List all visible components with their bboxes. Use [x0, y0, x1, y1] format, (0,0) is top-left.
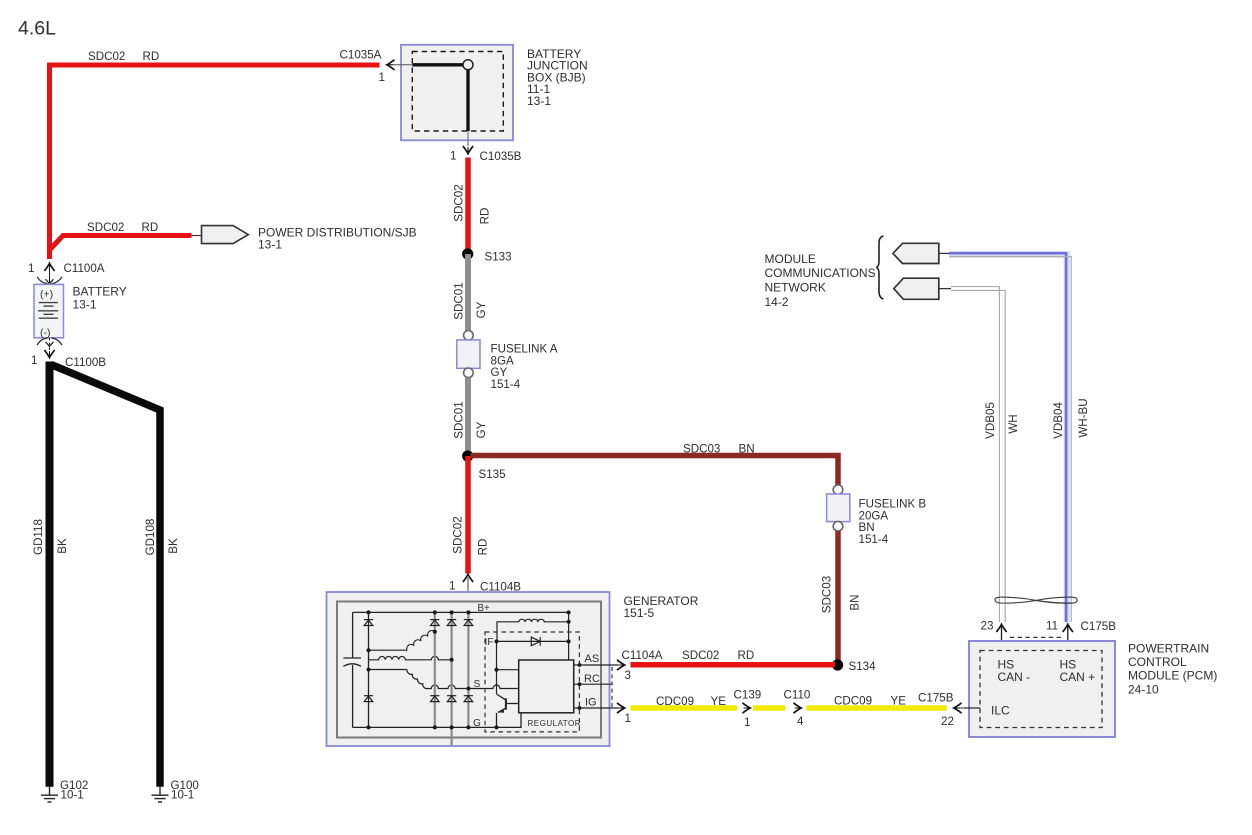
wire SDC03 BN S135 to fuselink B — [471, 456, 839, 486]
svg-text:RD: RD — [477, 539, 490, 556]
stator winding top — [407, 631, 435, 651]
svg-text:GY: GY — [475, 421, 488, 438]
field drive vertical — [497, 641, 519, 694]
svg-text:GY: GY — [475, 301, 488, 318]
svg-text:10-1: 10-1 — [171, 789, 194, 802]
svg-text:10-1: 10-1 — [61, 789, 84, 802]
svg-text:RD: RD — [738, 649, 755, 662]
svg-text:CDC09: CDC09 — [834, 695, 872, 708]
svg-text:SDC01: SDC01 — [453, 282, 466, 319]
twisted pair crossover — [995, 597, 1077, 603]
wire SDC03 BN fuselink B to S134 — [835, 531, 841, 665]
svg-text:POWERTRAIN: POWERTRAIN — [1128, 641, 1209, 655]
battery top terminal bracket — [37, 277, 62, 284]
svg-text:G: G — [473, 718, 481, 729]
svg-text:23: 23 — [981, 620, 994, 633]
svg-text:RD: RD — [479, 208, 492, 225]
pin AS — [574, 653, 631, 682]
svg-text:IG: IG — [585, 697, 597, 709]
field B+ vertical — [568, 612, 570, 660]
svg-text:S134: S134 — [849, 660, 877, 673]
generator left branch with capacitor — [343, 612, 361, 727]
svg-text:SDC01: SDC01 — [453, 401, 466, 438]
svg-text:CONTROL: CONTROL — [1128, 655, 1187, 669]
svg-text:SDC02: SDC02 — [452, 516, 465, 553]
svg-text:1: 1 — [450, 150, 456, 163]
svg-text:14-2: 14-2 — [765, 295, 789, 309]
connector C175B dashed link — [1010, 636, 1062, 638]
svg-text:1: 1 — [28, 262, 34, 275]
wire CDC09 YE C139 to C110 — [753, 705, 785, 711]
svg-text:RD: RD — [142, 221, 159, 234]
field winding — [497, 619, 569, 641]
svg-text:3: 3 — [625, 669, 631, 682]
svg-text:1: 1 — [31, 354, 37, 367]
svg-text:SDC02: SDC02 — [453, 184, 466, 221]
svg-text:BK: BK — [167, 538, 180, 554]
svg-text:VDB05: VDB05 — [984, 402, 997, 439]
generator ground rail — [353, 713, 521, 728]
svg-text:SDC03: SDC03 — [821, 576, 834, 613]
splice S134 — [832, 659, 876, 673]
connector C1104 dashed line — [611, 667, 613, 707]
svg-text:151-4: 151-4 — [859, 533, 889, 546]
lead line to SJB flag — [192, 235, 203, 237]
connector C1035A — [340, 49, 413, 85]
pin IG — [574, 697, 631, 726]
svg-text:C1035B: C1035B — [480, 150, 522, 163]
wire VDB05 WH twisted pair CAN- — [951, 287, 1005, 622]
svg-text:SDC03: SDC03 — [683, 443, 720, 456]
ground G102 — [41, 779, 88, 802]
stator winding bottom and S line — [407, 670, 519, 689]
wire CDC09 YE IG to C139 — [631, 705, 738, 711]
svg-text:YE: YE — [711, 695, 727, 708]
connector C139 — [734, 688, 762, 729]
svg-text:C110: C110 — [784, 688, 811, 701]
pin RC — [574, 673, 612, 686]
svg-text:BATTERY: BATTERY — [73, 285, 127, 299]
svg-text:BN: BN — [739, 443, 755, 456]
svg-text:C1100B: C1100B — [65, 356, 106, 369]
svg-text:IF: IF — [485, 637, 494, 648]
svg-text:24-10: 24-10 — [1128, 682, 1159, 696]
svg-text:AS: AS — [585, 653, 600, 665]
connector C1104B — [449, 573, 521, 612]
svg-text:WH: WH — [1007, 414, 1020, 433]
svg-text:1: 1 — [449, 580, 455, 593]
svg-text:C175B: C175B — [918, 691, 954, 704]
splice S135 — [462, 450, 505, 481]
stator neutral stubs — [369, 650, 408, 669]
svg-text:NETWORK: NETWORK — [765, 281, 826, 295]
PCM pin ILC lead — [964, 707, 980, 709]
ground wire GD118 BK — [46, 362, 54, 787]
svg-text:C175B: C175B — [1081, 620, 1117, 633]
wire VDB04 WH-BU twisted pair CAN+ — [949, 253, 1071, 622]
connector C1100B — [31, 351, 106, 370]
wire CDC09 YE C110 to C175B — [807, 705, 947, 711]
connector C110 — [784, 688, 811, 728]
label REGULATOR — [526, 718, 582, 728]
svg-text:GD108: GD108 — [144, 519, 157, 556]
svg-text:CAN -: CAN - — [998, 670, 1031, 684]
svg-text:CDC09: CDC09 — [656, 695, 694, 708]
svg-text:RC: RC — [584, 673, 600, 685]
svg-text:C1035A: C1035A — [340, 49, 382, 62]
svg-text:22: 22 — [941, 715, 954, 728]
svg-text:VDB04: VDB04 — [1052, 402, 1065, 439]
battery junction box BJB — [401, 45, 588, 141]
svg-text:MODULE: MODULE — [765, 252, 816, 266]
svg-text:13-1: 13-1 — [73, 298, 97, 312]
svg-text:BK: BK — [56, 538, 69, 554]
svg-text:YE: YE — [891, 695, 907, 708]
wire SDC02 RD generator AS to S134 — [631, 662, 836, 668]
regulator dashed box — [485, 632, 579, 732]
connector C175B pin 11 — [1046, 620, 1116, 653]
svg-text:BN: BN — [849, 594, 862, 610]
connector C1100A — [28, 262, 105, 285]
battery bottom terminal bracket — [37, 338, 62, 350]
module communications network label — [765, 252, 876, 309]
svg-text:REGULATOR: REGULATOR — [528, 719, 582, 728]
fuselink B — [827, 485, 927, 546]
svg-text:WH-BU: WH-BU — [1077, 398, 1090, 437]
svg-text:ILC: ILC — [991, 704, 1010, 718]
svg-text:(+): (+) — [40, 289, 53, 301]
field suppression diode line IF — [485, 637, 569, 648]
svg-text:11: 11 — [1046, 620, 1058, 633]
wire SDC01 GY fuselink A to S135 — [465, 378, 471, 451]
svg-text:COMMUNICATIONS: COMMUNICATIONS — [765, 266, 876, 280]
svg-text:SDC02: SDC02 — [682, 649, 719, 662]
svg-text:SDC02: SDC02 — [87, 221, 124, 234]
ground G100 — [152, 779, 199, 802]
curly brace — [876, 236, 883, 299]
svg-text:MODULE (PCM): MODULE (PCM) — [1128, 669, 1217, 683]
ground wire GD108 BK — [51, 365, 160, 787]
connector C175B pin 23 — [981, 620, 1007, 653]
off-page connector CAN bottom flag — [894, 278, 951, 299]
generator B+ rail — [353, 611, 569, 613]
svg-text:S133: S133 — [485, 251, 512, 264]
junction dots — [367, 610, 571, 729]
svg-text:13-1: 13-1 — [527, 94, 551, 108]
phase line 3 — [464, 612, 473, 727]
wire SDC01 GY S133 to fuselink A — [465, 254, 471, 331]
svg-text:CAN +: CAN + — [1060, 670, 1096, 684]
svg-text:151-5: 151-5 — [624, 606, 655, 620]
connector C1035B — [450, 147, 522, 164]
wire SDC02 RD branch to power distribution — [51, 236, 192, 250]
stator winding middle — [369, 656, 452, 659]
svg-text:RD: RD — [143, 50, 160, 63]
wire SDC02 RD battery to BJB — [50, 65, 380, 259]
svg-text:1: 1 — [625, 712, 631, 725]
splice S133 — [462, 248, 511, 263]
battery B13-1 — [34, 284, 127, 339]
svg-text:1: 1 — [744, 716, 750, 729]
generator exciter diode branch — [364, 612, 373, 727]
phase line 1 — [430, 612, 439, 727]
svg-text:B+: B+ — [478, 603, 491, 614]
BJB internal bus wire — [412, 60, 473, 146]
connector C175B at ILC — [918, 691, 980, 728]
svg-text:151-4: 151-4 — [491, 378, 521, 391]
generator box — [327, 592, 699, 746]
off-page connector CAN top flag — [893, 243, 949, 263]
svg-text:4.6L: 4.6L — [18, 18, 56, 40]
svg-text:GD118: GD118 — [32, 519, 45, 555]
svg-text:1: 1 — [379, 71, 385, 84]
svg-text:C1104A: C1104A — [622, 649, 663, 662]
regulator block — [519, 660, 574, 713]
svg-text:(-): (-) — [40, 327, 51, 339]
powertrain control module box — [969, 641, 1115, 737]
svg-text:S: S — [474, 679, 481, 690]
transistor Q — [497, 694, 519, 727]
wire SDC02 RD BJB to S133 — [465, 158, 471, 255]
off-page connector POWER DISTRIBUTION/SJB — [202, 226, 417, 252]
svg-text:4: 4 — [797, 715, 804, 728]
svg-text:C1100A: C1100A — [64, 262, 105, 275]
svg-text:13-1: 13-1 — [258, 237, 282, 251]
fuselink A — [457, 331, 558, 391]
phase line 2 — [447, 612, 456, 745]
svg-text:S135: S135 — [479, 468, 506, 481]
wire SDC02 RD S135 to C1104B — [465, 456, 471, 574]
svg-text:SDC02: SDC02 — [88, 50, 125, 63]
svg-text:C139: C139 — [734, 688, 762, 701]
PCM label — [1128, 641, 1217, 696]
